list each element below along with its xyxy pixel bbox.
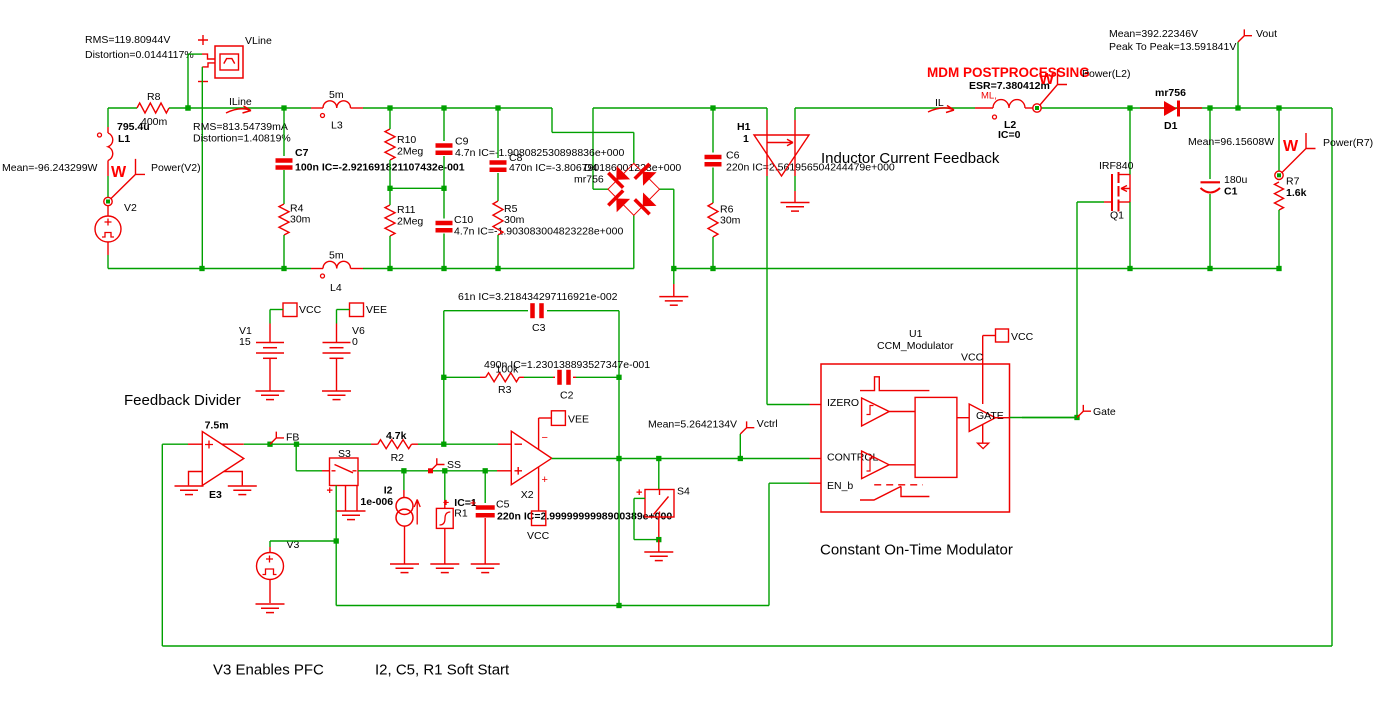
junction VLine plus on top rail xyxy=(185,105,190,110)
wire left feedback riser to E3 xyxy=(161,444,163,646)
svg-text:2Meg: 2Meg xyxy=(397,146,423,158)
junction VLine minus on bottom rail xyxy=(199,266,204,271)
svg-text:2Meg: 2Meg xyxy=(397,216,423,228)
wire Q1 gate net xyxy=(1076,202,1078,418)
svg-text:U1: U1 xyxy=(909,328,923,340)
wire bottom rail left section xyxy=(108,268,311,270)
wire control net xyxy=(619,458,810,460)
ground H1 xyxy=(781,202,810,204)
wire V3 net down to mid rail xyxy=(335,541,337,606)
svg-text:7.5m: 7.5m xyxy=(205,420,229,432)
svg-text:Power(V2): Power(V2) xyxy=(151,162,201,174)
junction FB marker xyxy=(267,442,272,447)
svg-text:Distortion=0.0144117%: Distortion=0.0144117% xyxy=(85,49,194,61)
junction S4 ground xyxy=(656,537,661,542)
resistor R10 xyxy=(389,108,391,129)
wire bottom rail right section xyxy=(674,268,1279,270)
junction top rail C9 xyxy=(441,105,446,110)
junction SS R1 xyxy=(442,468,447,473)
wire U1 gate output xyxy=(1010,417,1077,419)
net marker FB xyxy=(270,432,284,445)
svg-text:IL: IL xyxy=(935,97,944,109)
junction gate marker xyxy=(1074,415,1079,420)
current source I2 xyxy=(403,471,405,490)
wire VLine plus lead xyxy=(188,53,202,55)
svg-text:Feedback Divider: Feedback Divider xyxy=(124,392,241,409)
svg-text:V2: V2 xyxy=(124,202,137,214)
svg-text:I2, C5, R1 Soft Start: I2, C5, R1 Soft Start xyxy=(375,662,510,679)
svg-text:VCC: VCC xyxy=(299,304,322,316)
capacitor C7 xyxy=(283,108,285,156)
wire H1 output to ground xyxy=(794,176,796,191)
wire VLine minus lead to bottom rail xyxy=(201,67,203,269)
svg-text:mr756: mr756 xyxy=(1155,87,1186,99)
junction bottom rail Q1 xyxy=(1127,266,1132,271)
svg-text:I2: I2 xyxy=(384,485,393,497)
resistor R7 xyxy=(1278,108,1280,171)
U1 pin stub CONTROL xyxy=(810,458,822,460)
junction left column R3 xyxy=(441,375,446,380)
junction top rail R7 xyxy=(1276,105,1281,110)
junction bridge output xyxy=(671,266,676,271)
capacitor C2 xyxy=(557,370,562,385)
svg-text:15: 15 xyxy=(239,336,251,348)
wire left feedback column xyxy=(443,311,445,445)
svg-text:V3 Enables PFC: V3 Enables PFC xyxy=(213,662,324,679)
voltage source V3 xyxy=(269,541,271,547)
svg-text:R7: R7 xyxy=(1286,176,1300,188)
svg-text:30m: 30m xyxy=(290,214,311,226)
svg-text:C1: C1 xyxy=(1224,186,1238,198)
switch S3 xyxy=(322,470,330,472)
junction right column R3 xyxy=(616,375,621,380)
svg-text:GATE: GATE xyxy=(976,410,1004,422)
svg-text:VEE: VEE xyxy=(568,414,589,426)
diode D3 bridge bottom-left xyxy=(608,191,630,213)
svg-text:R8: R8 xyxy=(147,91,161,103)
ground V6 xyxy=(322,390,351,392)
svg-text:Gate: Gate xyxy=(1093,406,1116,418)
U1 gate driver xyxy=(969,404,995,432)
power rail symbol VCC U1 xyxy=(996,329,1009,342)
wire bridge right to ground rail xyxy=(660,188,674,190)
svg-text:VCC: VCC xyxy=(527,530,550,542)
U1 VCC feed xyxy=(982,336,984,405)
U1 IZERO comparator xyxy=(862,398,890,426)
svg-text:IC=0: IC=0 xyxy=(998,129,1021,141)
ground S4 xyxy=(658,540,660,552)
ground S3 xyxy=(345,485,347,510)
wire S4 bottom xyxy=(658,517,660,540)
junction mid rail R10 xyxy=(387,186,392,191)
svg-text:L3: L3 xyxy=(331,120,343,132)
inductor L1 xyxy=(107,108,109,127)
node IL arrow xyxy=(928,106,954,113)
junction bottom rail C7 xyxy=(281,266,286,271)
ground R1 xyxy=(430,563,459,565)
junction top rail C6 xyxy=(710,105,715,110)
svg-text:Vout: Vout xyxy=(1256,28,1277,40)
current sense H1 xyxy=(766,108,768,120)
net marker SS xyxy=(431,458,445,471)
resistor R1 soft-start xyxy=(444,471,446,500)
svg-text:L1: L1 xyxy=(118,133,130,145)
diode D1 bridge top-left xyxy=(608,165,630,187)
svg-text:C6: C6 xyxy=(726,150,740,162)
wire S4 control loop xyxy=(634,497,645,499)
svg-text:1e-006: 1e-006 xyxy=(360,496,393,508)
junction bottom rail C6 xyxy=(710,266,715,271)
wire right feedback column xyxy=(618,311,620,459)
ground V3 xyxy=(256,603,285,605)
junction top rail Q1 drain xyxy=(1127,105,1132,110)
wire EN_b riser xyxy=(768,483,770,605)
net marker Vout xyxy=(1237,42,1239,108)
svg-text:R11: R11 xyxy=(397,204,416,216)
wire right edge loop xyxy=(1331,108,1333,646)
junction bottom rail R7 xyxy=(1276,266,1281,271)
junction S4 branch xyxy=(656,456,661,461)
svg-text:4.7n IC=-1.908082530898836e+00: 4.7n IC=-1.908082530898836e+000 xyxy=(455,147,624,159)
wire bridge left feed xyxy=(592,108,594,189)
wire top rail right section xyxy=(593,107,767,109)
svg-text:Mean=392.22346V: Mean=392.22346V xyxy=(1109,28,1198,40)
wire C3 top feedback xyxy=(444,310,528,312)
svg-text:CCM_Modulator: CCM_Modulator xyxy=(877,340,954,352)
U1 pin stub EN_b xyxy=(810,482,822,484)
X2 VCC pin xyxy=(538,467,540,511)
svg-text:EN_b: EN_b xyxy=(827,480,853,492)
svg-text:+: + xyxy=(327,485,333,497)
E3 negative input to ground xyxy=(189,472,203,486)
svg-text:C2: C2 xyxy=(560,390,574,402)
wire SS rail xyxy=(358,470,497,472)
resistor R3 xyxy=(486,373,520,382)
op-amp X2 xyxy=(511,431,551,485)
svg-text:VCC: VCC xyxy=(1011,331,1034,343)
U1 pin stub IZERO xyxy=(810,404,822,406)
ground under bridge output xyxy=(673,269,675,285)
power probe Power(V2) xyxy=(104,197,112,205)
junction top rail Vout xyxy=(1235,105,1240,110)
svg-text:W: W xyxy=(1283,138,1299,155)
wire inverting input xyxy=(444,443,498,445)
resistor R4 xyxy=(279,204,289,235)
ground V1 xyxy=(256,390,285,392)
svg-text:L4: L4 xyxy=(330,282,342,294)
diode bridge outline xyxy=(608,163,660,215)
svg-text:Mean=96.15608W: Mean=96.15608W xyxy=(1188,136,1274,148)
svg-text:C3: C3 xyxy=(532,322,546,334)
svg-text:D4: D4 xyxy=(584,162,598,174)
svg-text:Peak To Peak=13.591841V: Peak To Peak=13.591841V xyxy=(1109,41,1236,53)
svg-text:VCC: VCC xyxy=(961,352,984,364)
wire right column to bottom mid rail xyxy=(618,459,620,606)
svg-text:180u: 180u xyxy=(1224,174,1248,186)
capacitor C8 xyxy=(497,108,499,158)
power probe Power(R7) xyxy=(1282,133,1316,173)
svg-text:5m: 5m xyxy=(329,250,344,262)
svg-text:R1: R1 xyxy=(454,508,468,520)
svg-text:VEE: VEE xyxy=(366,304,387,316)
junction top rail C8 xyxy=(495,105,500,110)
svg-text:4.7k: 4.7k xyxy=(386,430,407,442)
svg-text:4.7n IC=-1.903083004823228e+00: 4.7n IC=-1.903083004823228e+000 xyxy=(454,226,623,238)
inductor L2 xyxy=(975,107,993,109)
U1 EN_b switch glyph xyxy=(874,484,923,486)
junction Vctrl xyxy=(738,456,743,461)
svg-text:MDM POSTPROCESSING: MDM POSTPROCESSING xyxy=(927,65,1090,80)
svg-text:S3: S3 xyxy=(338,448,351,460)
resistor R11 xyxy=(389,188,391,205)
capacitor C6 xyxy=(712,108,714,153)
svg-text:RMS=119.80944V: RMS=119.80944V xyxy=(85,34,170,46)
svg-text:30m: 30m xyxy=(504,214,525,226)
svg-text:1.6k: 1.6k xyxy=(1286,187,1307,199)
svg-text:IZERO: IZERO xyxy=(827,397,859,409)
U1 gate driver ground arrow xyxy=(982,425,984,444)
svg-text:−: − xyxy=(542,432,548,444)
wire top rail left section xyxy=(108,107,137,109)
capacitor C9 xyxy=(443,108,445,141)
svg-text:E3: E3 xyxy=(209,489,222,501)
junction X2 output right column xyxy=(616,456,621,461)
junction bottom rail R11 xyxy=(387,266,392,271)
U1 CONTROL comparator xyxy=(862,451,890,479)
svg-text:Mean=-96.243299W: Mean=-96.243299W xyxy=(2,162,98,174)
junction top rail R10 xyxy=(387,105,392,110)
ic U1 CCM_Modulator box xyxy=(821,364,1010,512)
svg-text:61n IC=3.218434297116921e-002: 61n IC=3.218434297116921e-002 xyxy=(458,291,618,303)
resistor R2 xyxy=(297,443,372,445)
svg-text:100k: 100k xyxy=(496,364,520,376)
E3 negative output to ground xyxy=(224,472,243,486)
wire FB branch down to SS xyxy=(295,444,297,471)
wire H1 sense output to IZERO xyxy=(766,176,768,405)
wire middle rail R10-R11 xyxy=(390,187,444,189)
svg-text:100n IC=-2.921691821107432e-00: 100n IC=-2.921691821107432e-001 xyxy=(295,162,465,174)
wire V3 to S3 control xyxy=(270,540,336,542)
svg-text:Distortion=1.40819%: Distortion=1.40819% xyxy=(193,133,291,145)
svg-text:C5: C5 xyxy=(496,499,510,511)
inductor L3 xyxy=(311,107,323,109)
svg-text:5m: 5m xyxy=(329,89,344,101)
mosfet Q1 IRF840 xyxy=(1077,201,1104,203)
voltage source V2 xyxy=(107,206,109,216)
svg-text:SS: SS xyxy=(447,459,461,471)
U1 logic block xyxy=(915,397,957,477)
capacitor C3 xyxy=(530,303,535,318)
power probe Power(L2) xyxy=(1033,104,1041,112)
diode D4 bridge bottom-right xyxy=(635,192,657,214)
svg-text:0: 0 xyxy=(352,336,358,348)
svg-text:+: + xyxy=(636,487,642,499)
junction top rail C1 xyxy=(1207,105,1212,110)
svg-text:ML,: ML, xyxy=(981,91,997,102)
junction FB branch xyxy=(294,442,299,447)
junction mid rail right column xyxy=(616,603,621,608)
node ILine arrow xyxy=(226,106,251,113)
svg-text:IRF840: IRF840 xyxy=(1099,160,1134,172)
svg-text:mr756: mr756 xyxy=(574,174,604,186)
junction top rail x188 xyxy=(185,105,190,110)
junction SS C5 xyxy=(483,468,488,473)
junction V3 S3 control xyxy=(334,538,339,543)
svg-text:H1: H1 xyxy=(737,121,751,133)
junction bottom rail C1 xyxy=(1207,266,1212,271)
svg-text:ILine: ILine xyxy=(229,96,252,108)
net marker Gate xyxy=(1077,405,1091,418)
junction left column inverting input xyxy=(441,442,446,447)
svg-text:Constant On-Time Modulator: Constant On-Time Modulator xyxy=(820,542,1013,559)
svg-text:+: + xyxy=(470,498,476,510)
svg-text:C7: C7 xyxy=(295,147,309,159)
junction SS marker xyxy=(428,468,433,473)
wire E3 output to FB xyxy=(244,443,297,445)
svg-text:R2: R2 xyxy=(391,452,405,464)
svg-text:VLine: VLine xyxy=(245,35,272,47)
inductor L4 xyxy=(311,268,323,270)
resistor R8 xyxy=(137,103,169,113)
resistor R5 xyxy=(493,201,503,235)
junction mid rail C9 xyxy=(441,186,446,191)
vcvs E3 xyxy=(162,443,188,445)
svg-text:Power(R7): Power(R7) xyxy=(1323,137,1373,149)
voltage probe VLine xyxy=(198,35,208,45)
svg-text:Power(L2): Power(L2) xyxy=(1082,68,1130,80)
svg-text:R3: R3 xyxy=(498,384,512,396)
U1 pulse glyph xyxy=(860,377,929,391)
svg-text:W: W xyxy=(1039,71,1055,88)
capacitor C10 xyxy=(443,188,445,218)
wire bottom mid rail xyxy=(336,605,769,607)
svg-text:R10: R10 xyxy=(397,134,416,146)
junction SS I2 xyxy=(401,468,406,473)
svg-text:Inductor Current Feedback: Inductor Current Feedback xyxy=(821,150,1000,167)
svg-text:1: 1 xyxy=(743,133,749,145)
svg-text:X2: X2 xyxy=(521,489,534,501)
svg-text:30m: 30m xyxy=(720,215,741,227)
power rail symbol VEE V6 xyxy=(350,303,364,317)
svg-text:S4: S4 xyxy=(677,486,690,498)
diode D2 bridge top-right xyxy=(635,164,657,186)
diode D1 output xyxy=(1140,107,1164,109)
switch S4 xyxy=(658,459,660,490)
capacitor C1 xyxy=(1209,108,1211,179)
resistor R6 xyxy=(708,203,718,237)
svg-text:Mean=5.2642134V: Mean=5.2642134V xyxy=(648,419,737,431)
svg-text:Vctrl: Vctrl xyxy=(757,418,778,430)
svg-text:Q1: Q1 xyxy=(1110,210,1124,222)
wire S3 control to V3 net xyxy=(335,485,337,541)
wire step to bridge top xyxy=(551,108,553,132)
junction bottom rail R5 xyxy=(495,266,500,271)
svg-text:D1: D1 xyxy=(1164,120,1178,132)
svg-text:RMS=813.54739mA: RMS=813.54739mA xyxy=(193,121,288,133)
net marker Vctrl xyxy=(739,434,741,459)
capacitor C5 xyxy=(484,471,486,503)
svg-text:C9: C9 xyxy=(455,136,469,148)
power rail symbol VCC V1 xyxy=(283,303,297,317)
ground I2 xyxy=(390,563,419,565)
svg-text:+: + xyxy=(443,497,449,509)
svg-text:C10: C10 xyxy=(454,214,473,226)
wire X2 output xyxy=(552,458,619,460)
wire R3 C2 branch xyxy=(444,376,480,378)
svg-text:795.4u: 795.4u xyxy=(117,121,150,133)
svg-text:+: + xyxy=(542,474,548,486)
ground C5 xyxy=(471,563,500,565)
junction top rail C7 xyxy=(281,105,286,110)
junction bottom rail C10 xyxy=(441,266,446,271)
svg-text:W: W xyxy=(111,164,127,181)
X2 VEE pin xyxy=(538,418,540,449)
